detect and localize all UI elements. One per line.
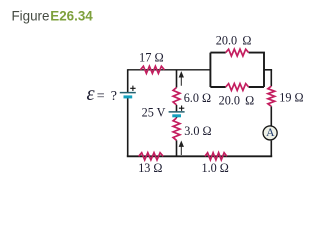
battery EMF (left) long plate: [120, 92, 136, 94]
svg-text:17 Ω: 17 Ω: [139, 51, 164, 65]
svg-text:E26.34: E26.34: [50, 8, 93, 23]
resistor 19-ohm: [268, 86, 275, 106]
svg-text:13 Ω: 13 Ω: [138, 161, 162, 175]
svg-text:25 V: 25 V: [142, 105, 166, 119]
battery 25-V short plate: [172, 114, 181, 117]
svg-text:19 Ω: 19 Ω: [279, 91, 303, 105]
resistor 13-ohm: [139, 153, 164, 160]
svg-text:1.0 Ω: 1.0 Ω: [202, 161, 229, 175]
wire middle (25-V battery to 3.0-ohm): [176, 116, 178, 118]
wire left lower (battery to bottom corner): [127, 97, 129, 156]
wire middle upper (top junction to 6.0-ohm): [176, 70, 178, 88]
resistor 20.0-ohm bottom branch: [226, 84, 249, 91]
svg-text:ε=?: ε=?: [87, 83, 118, 105]
svg-text:20.0Ω: 20.0Ω: [219, 93, 255, 107]
wire right lower (ammeter to bottom corner): [270, 141, 272, 157]
svg-text:3.0 Ω: 3.0 Ω: [184, 124, 211, 138]
resistor 17-ohm: [140, 66, 164, 73]
battery 25-V plus sign: [179, 106, 184, 111]
battery 25-V long plate: [169, 111, 185, 113]
battery EMF (left) short plate: [124, 95, 133, 98]
svg-text:Figure: Figure: [12, 8, 50, 23]
svg-text:A: A: [266, 126, 275, 139]
ammeter A: [263, 126, 277, 140]
wire left upper (top corner to battery): [127, 69, 129, 92]
wire stub box to right branch: [264, 69, 272, 71]
parallel box frame: [210, 53, 264, 87]
wire right middle (19-ohm to ammeter): [270, 106, 272, 125]
wire middle (6.0-ohm to 25-V battery): [176, 105, 178, 112]
current arrow lower (beside bottom junction): [179, 142, 183, 155]
battery EMF plus sign: [130, 86, 135, 91]
svg-text:6.0 Ω: 6.0 Ω: [184, 91, 211, 105]
wire middle lower (3.0-ohm to bottom junction): [176, 140, 178, 156]
resistor 6.0-ohm: [173, 88, 180, 105]
svg-text:20.0Ω: 20.0Ω: [216, 34, 252, 48]
resistor 1.0-ohm: [205, 153, 227, 160]
wire bottom: [127, 155, 272, 157]
resistor 3.0-ohm: [173, 118, 180, 140]
current arrow upper (beside 6.0-ohm): [179, 72, 183, 85]
resistor 20.0-ohm top branch: [226, 49, 249, 56]
wire top (left node to parallel box): [128, 69, 211, 71]
wire right upper (stub to 19-ohm): [270, 70, 272, 86]
